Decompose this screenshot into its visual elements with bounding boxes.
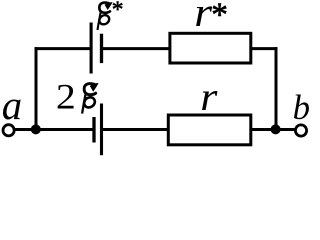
svg-text:2: 2	[56, 77, 76, 117]
terminal a circle	[3, 125, 14, 136]
svg-text:b: b	[293, 88, 310, 127]
svg-text:*: *	[211, 0, 228, 34]
wire: top rail right segment (resistor r* to corner)	[251, 47, 278, 50]
battery 2E long plate	[100, 104, 103, 156]
svg-text:r: r	[194, 0, 213, 36]
svg-text:a: a	[2, 83, 22, 128]
label 2E : digit 2	[56, 77, 76, 117]
wire: bottom rail from terminal a to battery 2E	[15, 128, 95, 131]
battery E* short plate	[100, 34, 103, 63]
resistor r box	[168, 115, 251, 145]
wire: top rail left segment (corner to battery E*)	[35, 47, 92, 50]
wire: top rail from battery E* to resistor r*	[102, 47, 171, 50]
battery E* long plate	[90, 23, 93, 74]
EMF script-E glyph (top, E*)	[97, 2, 112, 30]
wire: bottom rail from resistor r to terminal b	[251, 128, 295, 131]
wire: right vertical from top rail down to node b junction	[275, 47, 278, 129]
resistor r* box	[170, 33, 251, 63]
svg-text:r: r	[200, 76, 218, 120]
wire: left vertical from top rail down to node a junction	[35, 47, 38, 129]
svg-text:*: *	[112, 0, 124, 23]
wire: bottom rail from battery 2E to resistor r	[102, 128, 169, 131]
node b junction dot	[271, 124, 281, 134]
battery 2E short plate	[92, 117, 95, 143]
label r* : r	[194, 0, 213, 36]
node a junction dot	[31, 124, 41, 134]
EMF script-E glyph (bottom, 2E)	[82, 83, 99, 114]
label r (bottom resistor)	[200, 76, 218, 120]
terminal b circle	[295, 125, 306, 136]
